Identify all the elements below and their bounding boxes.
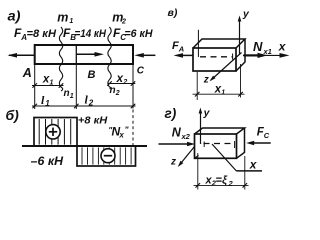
svg-text:y: y <box>242 8 250 20</box>
svg-text:2: 2 <box>122 79 127 86</box>
svg-text:1: 1 <box>70 93 74 100</box>
svg-text:x: x <box>116 73 124 85</box>
svg-text:=8 кН: =8 кН <box>27 28 58 40</box>
svg-text:A: A <box>178 44 184 53</box>
svg-text:1: 1 <box>50 80 54 87</box>
svg-text:2: 2 <box>88 99 94 108</box>
svg-text:г): г) <box>165 106 177 121</box>
svg-text:B: B <box>88 69 96 81</box>
svg-text:x: x <box>118 130 124 139</box>
svg-text:–6 кН: –6 кН <box>31 156 64 168</box>
svg-text:=14 кН: =14 кН <box>75 28 107 40</box>
svg-text:A: A <box>22 66 32 80</box>
svg-text:y: y <box>203 107 211 119</box>
svg-text:z: z <box>170 157 176 168</box>
svg-text:1: 1 <box>45 99 50 108</box>
svg-text:1: 1 <box>69 18 73 25</box>
svg-text:б): б) <box>6 107 20 123</box>
svg-text:x: x <box>278 40 287 54</box>
svg-text:2: 2 <box>115 90 120 97</box>
svg-text:x: x <box>249 157 258 171</box>
svg-text:1: 1 <box>221 89 225 96</box>
svg-text:n: n <box>64 88 70 99</box>
svg-text:2: 2 <box>121 19 126 26</box>
svg-text:n: n <box>110 85 116 96</box>
svg-text:в): в) <box>168 7 178 19</box>
svg-text:=6 кН: =6 кН <box>125 28 154 40</box>
svg-text:C: C <box>264 131 270 140</box>
svg-text:m: m <box>57 10 68 24</box>
svg-text:а): а) <box>8 9 22 24</box>
svg-text:x2: x2 <box>181 132 191 141</box>
svg-text:z: z <box>203 75 209 86</box>
svg-text:+8 кН: +8 кН <box>78 115 108 127</box>
svg-text:N: N <box>253 39 263 54</box>
svg-text:N: N <box>172 126 182 140</box>
svg-text:2: 2 <box>228 179 234 188</box>
svg-text:C: C <box>137 66 145 77</box>
svg-text:x1: x1 <box>263 47 272 56</box>
